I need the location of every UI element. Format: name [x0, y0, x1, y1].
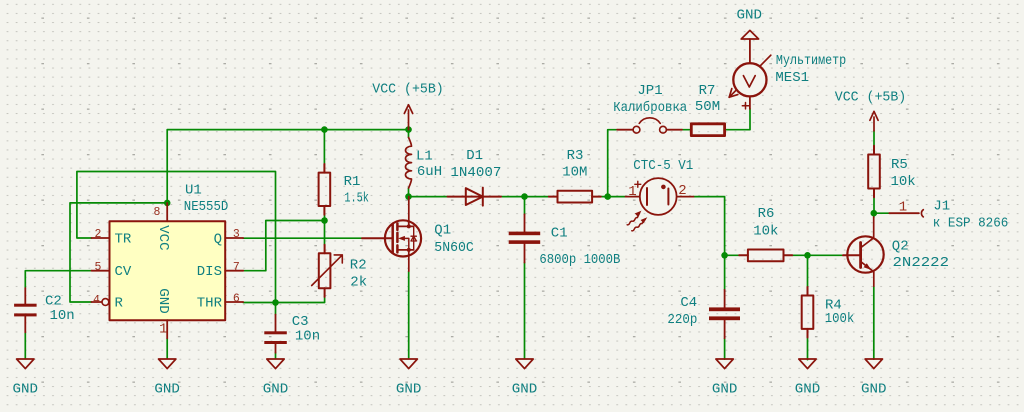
- capacitor C4: [709, 290, 740, 339]
- junction R1 top rail: [321, 126, 328, 133]
- svg-text:10k: 10k: [753, 224, 778, 240]
- svg-text:JP1: JP1: [637, 83, 662, 99]
- svg-text:R5: R5: [891, 157, 908, 173]
- wire CV to C2: [25, 271, 91, 288]
- multimeter MES1: [729, 39, 771, 109]
- resistor R6: [739, 250, 792, 262]
- geiger tube V1 CTC-5: [626, 178, 694, 215]
- junction THR C3 node: [272, 299, 279, 306]
- svg-text:Калибровка: Калибровка: [613, 99, 687, 116]
- wire C1 bottom to GND: [524, 263, 526, 359]
- ground C3: [267, 359, 284, 369]
- svg-text:1.5k: 1.5k: [344, 190, 369, 206]
- wire VCC2 to R5: [873, 131, 875, 146]
- svg-text:NE555D: NE555D: [184, 199, 229, 215]
- svg-text:Q: Q: [214, 231, 222, 247]
- ground Q2: [865, 359, 882, 369]
- svg-text:2: 2: [94, 228, 101, 241]
- svg-text:Q1: Q1: [434, 223, 451, 239]
- svg-text:CV: CV: [115, 264, 132, 280]
- svg-text:C1: C1: [551, 225, 568, 241]
- svg-text:5N60C: 5N60C: [434, 240, 474, 256]
- ground R4: [799, 359, 816, 369]
- svg-text:GND: GND: [737, 7, 763, 23]
- svg-text:10k: 10k: [891, 174, 916, 190]
- svg-text:GND: GND: [155, 288, 171, 314]
- wire base node to Q2 base: [808, 254, 844, 256]
- wire TR to THR loop: [77, 172, 276, 303]
- svg-text:C4: C4: [680, 295, 697, 311]
- svg-text:R7: R7: [699, 83, 716, 99]
- svg-text:4: 4: [93, 294, 100, 307]
- svg-text:GND: GND: [154, 381, 180, 397]
- wire JP1 to R7: [682, 129, 691, 131]
- svg-text:THR: THR: [197, 295, 223, 311]
- svg-text:VCC: VCC: [155, 225, 171, 251]
- wire IC pin1 to GND: [166, 338, 168, 358]
- junction VCC L1: [405, 126, 412, 133]
- junction R1 R2 DIS node: [321, 217, 328, 224]
- ground U1: [159, 359, 176, 369]
- resistor R1: [319, 164, 331, 215]
- svg-text:Q2: Q2: [892, 239, 909, 255]
- wire Q2 emitter to GND: [873, 286, 875, 359]
- svg-text:50M: 50M: [695, 99, 720, 115]
- wire collector node to J1: [874, 212, 890, 214]
- wire tube to C4 node: [694, 197, 725, 256]
- svg-text:к ESP 8266: к ESP 8266: [933, 215, 1009, 231]
- junction C1 node: [521, 193, 528, 200]
- pin 4 R inverted: [92, 301, 102, 303]
- svg-text:2k: 2k: [350, 274, 367, 290]
- svg-text:GND: GND: [13, 381, 39, 397]
- power VCC left: [404, 105, 412, 130]
- junction C4 R6 node: [721, 252, 728, 259]
- pin 3 Q: [225, 237, 243, 239]
- multimeter V glyph: [743, 76, 755, 87]
- svg-text:R2: R2: [350, 257, 367, 273]
- junction pin8 VCC node: [164, 200, 171, 207]
- svg-text:VCC (+5В): VCC (+5В): [835, 90, 907, 106]
- svg-text:GND: GND: [712, 381, 738, 397]
- svg-text:7: 7: [233, 261, 240, 274]
- junction R5 collector J1 node: [871, 210, 878, 217]
- capacitor C1: [509, 214, 541, 262]
- svg-text:J1: J1: [933, 198, 950, 214]
- wire C3 bottom to GND: [275, 353, 277, 359]
- svg-text:1: 1: [628, 184, 636, 200]
- wire HV rail drain to D1: [409, 196, 448, 198]
- svg-text:U1: U1: [185, 183, 202, 199]
- power GND top: [741, 30, 758, 39]
- wire C1 top: [524, 197, 526, 215]
- inductor L1: [405, 138, 411, 189]
- wire DIS to R1-R2 node: [243, 221, 324, 271]
- power VCC right: [870, 111, 878, 130]
- wire C2 bottom to GND: [24, 332, 26, 358]
- svg-text:R1: R1: [344, 174, 361, 190]
- wire JP1 drop: [608, 130, 617, 197]
- jumper JP1: [617, 118, 682, 133]
- wire VCC to L1: [408, 130, 410, 138]
- photon arrow 1: [627, 211, 641, 225]
- wire C3 top: [275, 303, 277, 315]
- wire R5 to collector node: [873, 197, 875, 217]
- svg-text:VCC (+5В): VCC (+5В): [372, 81, 444, 97]
- svg-text:R: R: [115, 295, 124, 311]
- capacitor C2: [14, 288, 36, 332]
- wire THR to R2 bottom: [243, 297, 324, 303]
- diode D1: [448, 188, 502, 206]
- svg-text:CTC-5 V1: CTC-5 V1: [633, 158, 693, 174]
- wire Q1 source to GND: [408, 271, 410, 358]
- svg-text:100k: 100k: [825, 311, 855, 327]
- ground C4: [716, 359, 733, 369]
- svg-text:R6: R6: [758, 206, 775, 222]
- ground C1: [516, 359, 533, 369]
- pin 1 GND: [166, 320, 168, 338]
- svg-text:6: 6: [233, 292, 240, 305]
- wire R4 top: [807, 255, 809, 287]
- resistor R2 variable: [312, 245, 343, 297]
- pin 6 THR: [225, 301, 243, 303]
- junction drain node: [405, 193, 412, 200]
- wire R6 to base node: [792, 254, 807, 256]
- connector J1: [889, 210, 923, 217]
- pin 7 DIS: [225, 270, 243, 272]
- svg-text:C3: C3: [292, 314, 309, 330]
- resistor R4: [802, 287, 814, 338]
- pin 5 CV: [92, 270, 110, 272]
- svg-text:5: 5: [94, 261, 101, 274]
- svg-text:220p: 220p: [667, 312, 697, 328]
- svg-text:1N4007: 1N4007: [450, 165, 501, 181]
- svg-text:GND: GND: [512, 381, 538, 397]
- wire L1 to drain node: [408, 188, 410, 197]
- plus mark tube anode: [635, 181, 641, 187]
- junction JP1 drop node: [604, 193, 611, 200]
- resistor R3: [549, 191, 601, 203]
- pin 2 TR: [92, 237, 110, 239]
- svg-text:GND: GND: [861, 381, 887, 397]
- transistor Q1 MOSFET 5N60C: [362, 197, 421, 272]
- wire R1 top: [323, 130, 325, 164]
- svg-text:1: 1: [899, 200, 907, 216]
- svg-text:3: 3: [233, 228, 240, 241]
- svg-text:6uH: 6uH: [417, 164, 442, 180]
- wire C4 node to R6: [725, 254, 740, 256]
- svg-text:10n: 10n: [50, 308, 75, 324]
- transistor Q2 2N2222: [843, 217, 884, 286]
- svg-text:GND: GND: [263, 381, 289, 397]
- pin 8 VCC: [166, 203, 168, 221]
- op-amp U1 body NE555D: [110, 221, 226, 320]
- wire R3 to tube node: [601, 196, 626, 198]
- wire pin8 to reset loop: [70, 203, 167, 302]
- svg-text:R3: R3: [567, 148, 584, 164]
- wire D1 to C1 node to R3: [501, 196, 549, 198]
- svg-text:2: 2: [678, 183, 686, 199]
- ground Q1: [400, 359, 417, 369]
- photon arrow 2: [632, 217, 648, 231]
- svg-text:6800p 1000В: 6800p 1000В: [539, 252, 620, 268]
- wire top VCC rail: [167, 130, 408, 203]
- wire R1 bottom to R2 top: [324, 215, 326, 245]
- wire R7 to multimeter: [725, 109, 750, 130]
- svg-text:Мультиметр: Мультиметр: [776, 53, 846, 69]
- wire C4 bottom to GND: [724, 338, 726, 359]
- ground C2: [17, 359, 34, 369]
- svg-text:10n: 10n: [295, 329, 320, 345]
- svg-text:L1: L1: [416, 148, 433, 164]
- resistor R5: [868, 146, 880, 197]
- wire C4 top: [724, 255, 726, 289]
- svg-text:10M: 10M: [562, 165, 587, 181]
- wire R4 bottom to GND: [807, 338, 809, 360]
- svg-text:MES1: MES1: [775, 70, 809, 86]
- svg-text:D1: D1: [466, 148, 483, 164]
- svg-text:GND: GND: [396, 381, 422, 397]
- svg-text:2N2222: 2N2222: [893, 255, 950, 271]
- resistor R7: [691, 124, 724, 136]
- svg-text:1: 1: [159, 321, 167, 337]
- wire Q output to gate: [243, 237, 362, 239]
- junction R6 R4 base node: [804, 252, 811, 259]
- svg-text:TR: TR: [115, 231, 132, 247]
- svg-text:GND: GND: [795, 381, 821, 397]
- capacitor C3: [264, 315, 287, 353]
- svg-text:DIS: DIS: [197, 264, 222, 280]
- svg-text:8: 8: [154, 206, 161, 219]
